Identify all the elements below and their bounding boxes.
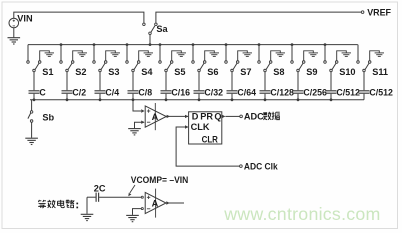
node bottom-bus junction C2 <box>66 98 69 101</box>
capacitor C <box>29 90 40 92</box>
eq - mark <box>147 208 150 210</box>
ground hook S2 <box>73 51 83 61</box>
wire comparator to DFF <box>167 115 189 117</box>
wire bus to Sb <box>31 100 33 111</box>
wire VIN to Sa <box>14 12 144 23</box>
comparator output arrow <box>167 115 170 118</box>
switch Sa <box>143 23 146 26</box>
svg-text:S6: S6 <box>207 67 218 77</box>
glyph 效 (equivalent) <box>47 200 55 208</box>
ring + input <box>141 196 143 198</box>
svg-text:C/128: C/128 <box>270 88 294 98</box>
svg-text:S3: S3 <box>108 67 119 77</box>
wire bus drop S4 <box>126 45 128 61</box>
wire bus drop S5 <box>159 45 161 61</box>
node bottom-bus junction C7 <box>231 98 234 101</box>
wire Sa to VREF terminal <box>156 12 361 23</box>
annotation arrow <box>130 185 135 193</box>
top bus (DAC rail) <box>28 44 358 46</box>
svg-text:S7: S7 <box>240 67 251 77</box>
switch S3 <box>93 61 96 64</box>
node bottom-bus junction C3 <box>99 98 102 101</box>
wire S6 to capacitor <box>198 72 200 91</box>
svg-text:C/8: C/8 <box>138 88 152 98</box>
svg-text:ADC: ADC <box>244 112 264 122</box>
ground hook S6 <box>205 51 215 61</box>
wire S3 to capacitor <box>99 72 101 91</box>
capacitor C/512 <box>359 90 370 92</box>
glyph 等 (equivalent) <box>38 200 46 208</box>
svg-text:S1: S1 <box>42 67 53 77</box>
svg-text:C/512: C/512 <box>336 88 360 98</box>
ring - input <box>141 208 143 210</box>
node bottom-bus junction C5 <box>165 98 168 101</box>
ground (VIN) <box>13 28 15 38</box>
svg-text:VIN: VIN <box>17 13 33 23</box>
ground hook S11 <box>370 51 380 61</box>
ground hook S10 <box>337 51 347 61</box>
svg-text:C/64: C/64 <box>237 88 256 98</box>
svg-text:C/32: C/32 <box>204 88 223 98</box>
capacitor C/8 <box>128 90 139 92</box>
terminal ADC data <box>240 115 243 118</box>
node top-bus junction S4 <box>126 43 129 46</box>
switch Sb <box>30 111 32 114</box>
voltage source VIN <box>9 18 19 28</box>
comparator + mark <box>147 110 150 112</box>
wire eq-circuit left <box>87 196 96 198</box>
wire eq output <box>166 202 184 204</box>
capacitor 2C <box>95 193 97 202</box>
svg-text:D: D <box>192 112 199 122</box>
arrow into CLK <box>185 125 188 128</box>
node bottom-bus junction C6 <box>198 98 201 101</box>
switch S9 <box>291 61 294 64</box>
node top-bus junction S5 <box>159 43 162 46</box>
ground hook S4 <box>139 51 149 61</box>
svg-text:VREF: VREF <box>367 8 391 19</box>
svg-text:S11: S11 <box>372 67 388 77</box>
capacitor C/4 <box>95 90 106 92</box>
wire bus drop S10 <box>324 45 326 61</box>
capacitor C/32 <box>194 90 205 92</box>
op-amp - wire <box>133 209 142 215</box>
wire bus drop S9 <box>291 45 293 61</box>
wire bus drop S1 <box>27 45 29 61</box>
node top-bus junction S3 <box>93 43 96 46</box>
comparator ground wire <box>135 122 145 128</box>
op-amp A2 (equivalent) <box>145 192 166 213</box>
node bottom-bus junction C10 <box>330 98 333 101</box>
wire bus drop S7 <box>225 45 227 61</box>
bottom bus (comparator input rail) <box>30 99 364 101</box>
wire bus drop S8 <box>258 45 260 61</box>
terminal VREF <box>361 11 364 14</box>
wire bus drop S11 <box>357 45 359 61</box>
wire bus drop S3 <box>93 45 95 61</box>
svg-text:Sa: Sa <box>156 24 168 34</box>
switch S2 <box>60 61 63 64</box>
svg-text:CLK: CLK <box>191 122 210 132</box>
comparator - mark <box>147 121 150 123</box>
svg-text:PR: PR <box>200 112 213 122</box>
svg-text:VCOMP= –VIN: VCOMP= –VIN <box>131 175 189 185</box>
switch S1 <box>27 61 30 64</box>
op-amp A1 (comparator) <box>145 106 166 127</box>
switch S4 <box>126 61 129 64</box>
colon (equivalent circuit) <box>76 203 78 205</box>
D flip-flop box <box>189 112 222 144</box>
glyph 数 (ADC data) <box>263 112 271 120</box>
node bottom-bus junction C9 <box>297 98 300 101</box>
ground (comparator -) <box>128 129 141 135</box>
capacitor C/64 <box>227 90 238 92</box>
ground hook S8 <box>271 51 281 61</box>
arrow into - input <box>141 121 144 124</box>
capacitor C/512 <box>326 90 337 92</box>
wire S10 to capacitor <box>330 72 332 91</box>
wire S9 to capacitor <box>297 72 299 91</box>
switch S7 <box>225 61 228 64</box>
svg-text:C/2: C/2 <box>72 88 86 98</box>
node top-bus junction S8 <box>258 43 261 46</box>
wire S1 to capacitor <box>33 72 35 91</box>
node top-bus junction S7 <box>225 43 228 46</box>
Q output arrow <box>222 115 225 118</box>
node top-bus junction S10 <box>324 43 327 46</box>
wire bus tap to comparator + <box>133 100 141 111</box>
arrow into + input <box>141 109 144 112</box>
svg-text:Q: Q <box>214 112 221 122</box>
svg-text:C/16: C/16 <box>171 88 190 98</box>
svg-text:C: C <box>39 88 46 98</box>
switch S8 <box>258 61 261 64</box>
svg-text:S5: S5 <box>174 67 185 77</box>
wire S8 to capacitor <box>264 72 266 91</box>
ground hook S7 <box>238 51 248 61</box>
node top-bus junction S9 <box>291 43 294 46</box>
wire S4 to capacitor <box>132 72 134 91</box>
arrow into D <box>185 115 188 118</box>
svg-text:ADC Clk: ADC Clk <box>244 161 279 171</box>
capacitor C/128 <box>260 90 271 92</box>
glyph 路 (equivalent) <box>66 200 74 208</box>
eq + mark <box>147 196 150 198</box>
node top-bus junction S2 <box>60 43 63 46</box>
ground (eq left) <box>86 197 88 214</box>
node Sa-bus junction <box>149 43 152 46</box>
eq output arrow <box>166 201 169 204</box>
svg-text:S4: S4 <box>141 67 153 77</box>
svg-text:S9: S9 <box>306 67 317 77</box>
svg-text:C/512: C/512 <box>369 88 393 98</box>
node bottom-bus junction C1 <box>33 98 36 101</box>
wire Sb to ground <box>31 122 33 138</box>
svg-text:C/256: C/256 <box>303 88 327 98</box>
svg-text:C/4: C/4 <box>105 88 119 98</box>
glyph 据 (ADC data) <box>272 112 280 120</box>
switch S11 <box>357 61 360 64</box>
svg-text:www.cntronics.com: www.cntronics.com <box>223 204 380 224</box>
ground hook S9 <box>304 51 314 61</box>
terminal ADC Clk <box>240 165 243 168</box>
ground hook S1 <box>40 51 50 61</box>
svg-text:A: A <box>152 112 159 122</box>
wire S2 to capacitor <box>66 72 68 91</box>
wire ADC Clk to CLK <box>176 127 240 166</box>
node bottom-bus junction C8 <box>264 98 267 101</box>
svg-text:S2: S2 <box>75 67 86 77</box>
capacitor C/2 <box>62 90 73 92</box>
svg-text:S10: S10 <box>339 67 355 77</box>
switch S10 <box>324 61 327 64</box>
wire S5 to capacitor <box>165 72 167 91</box>
node bottom-bus junction C4 <box>132 98 135 101</box>
wire bus drop S2 <box>60 45 62 61</box>
ground hook S5 <box>172 51 182 61</box>
switch S5 <box>159 61 162 64</box>
wire bus drop S6 <box>192 45 194 61</box>
capacitor C/256 <box>293 90 304 92</box>
wire Q to ADC data terminal <box>225 115 239 117</box>
svg-text:S8: S8 <box>273 67 284 77</box>
svg-text:CLR: CLR <box>202 135 219 145</box>
svg-text:Sb: Sb <box>42 112 54 122</box>
wire S11 to capacitor <box>363 72 365 91</box>
ground (eq op-amp) <box>126 215 139 221</box>
svg-text:2C: 2C <box>94 183 106 193</box>
svg-text:A: A <box>152 198 159 208</box>
switch S6 <box>192 61 195 64</box>
wire 2C to op-amp <box>99 196 141 198</box>
glyph 电 (equivalent) <box>58 200 65 208</box>
ground (Sb) <box>25 138 38 144</box>
wire Sa pole to top bus <box>149 35 151 45</box>
capacitor C/16 <box>161 90 172 92</box>
node top-bus junction S6 <box>192 43 195 46</box>
wire S7 to capacitor <box>231 72 233 91</box>
ground hook S3 <box>106 51 116 61</box>
